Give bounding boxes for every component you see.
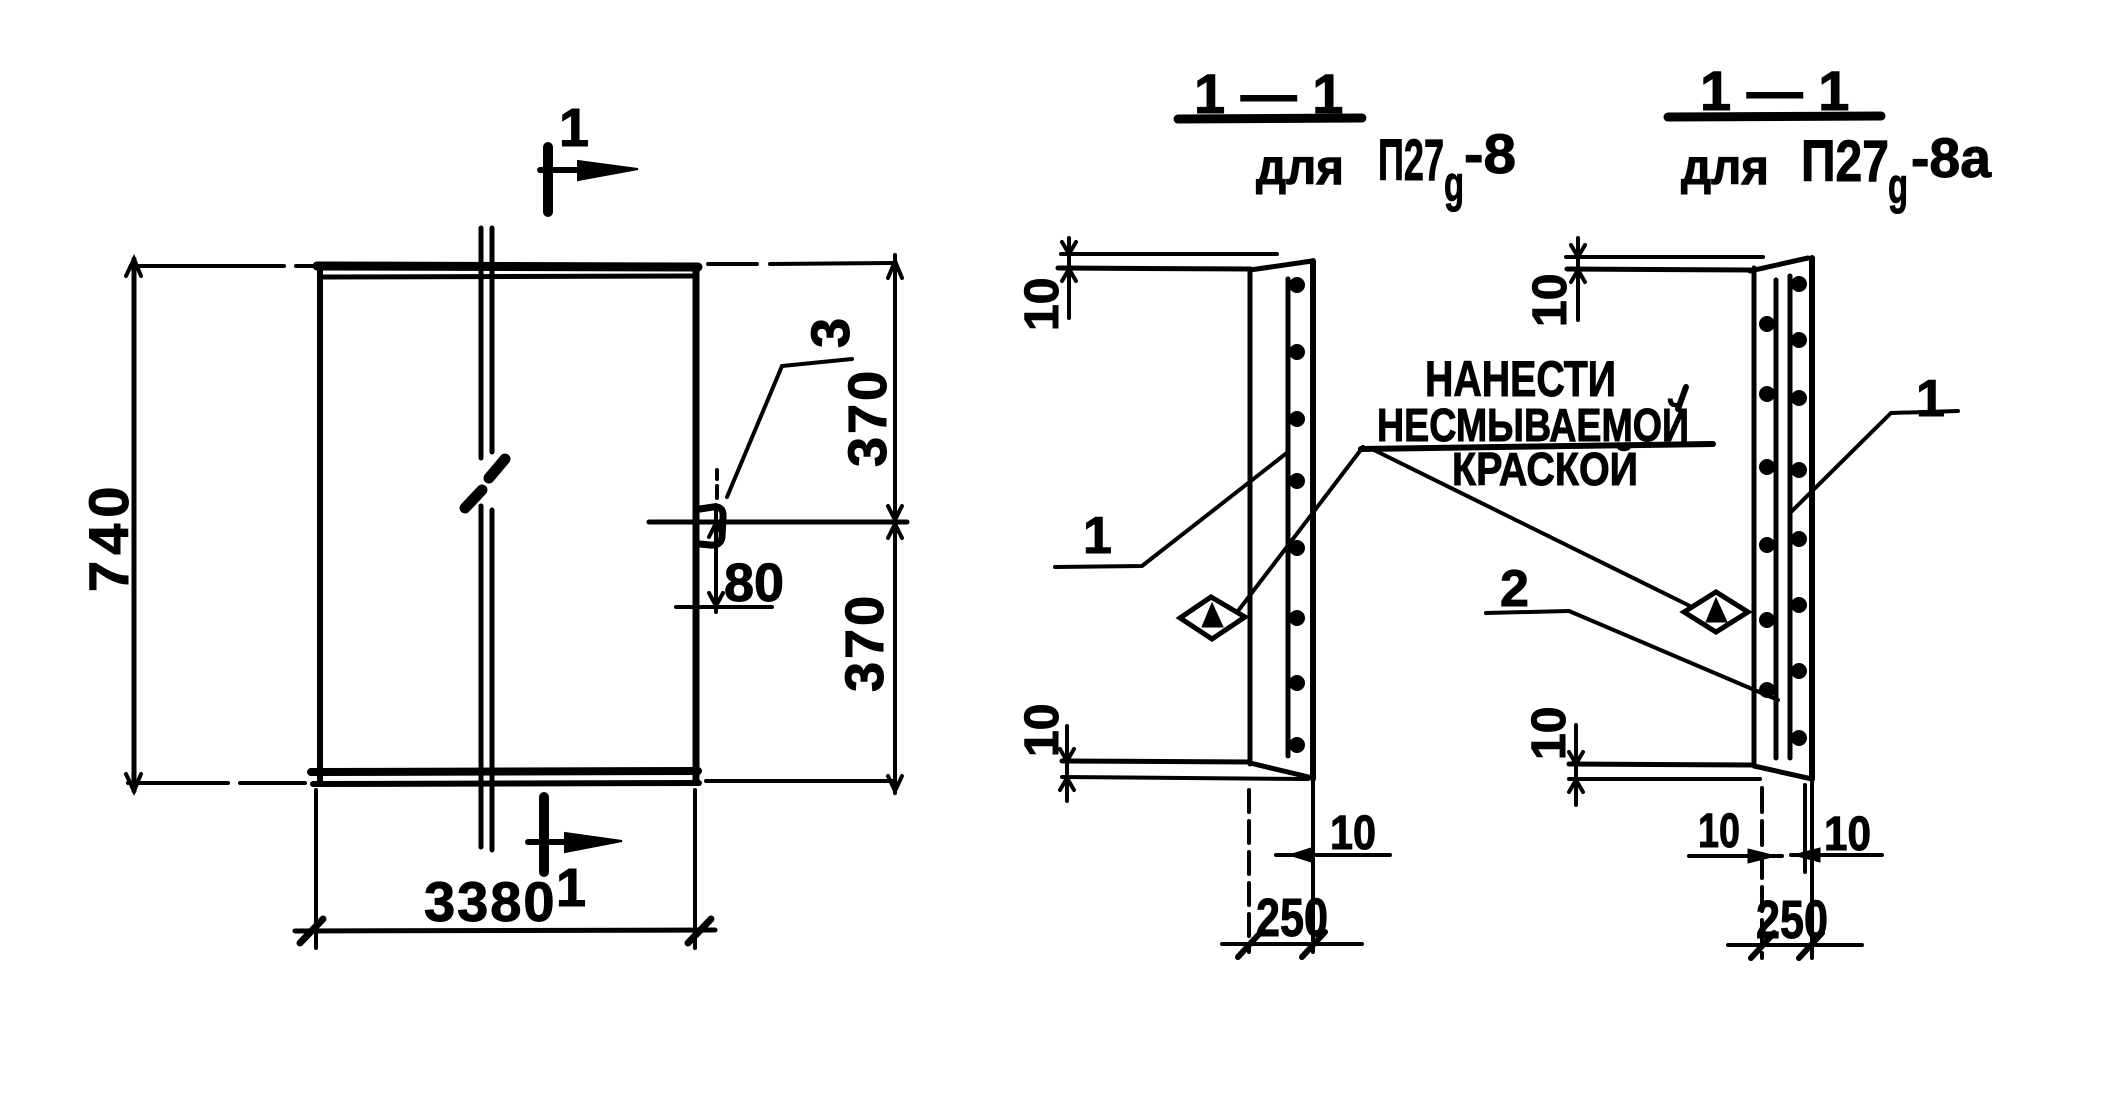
middle title 1-1 — [1178, 118, 1362, 119]
middle top extension line — [1061, 252, 1277, 256]
right item 2 leader — [1486, 611, 1778, 700]
right subtitle для П27д-8а — [1681, 126, 1992, 214]
middle dimension 250 — [1222, 932, 1362, 957]
dimension 80 — [676, 505, 772, 612]
top extension line right — [708, 263, 893, 264]
svg-text:для: для — [1256, 139, 1344, 195]
middle dimension 10 bottom right — [1276, 848, 1390, 862]
svg-text:740: 740 — [77, 481, 140, 592]
svg-text:1 — 1: 1 — 1 — [1700, 59, 1849, 122]
bottom extension line left — [128, 781, 305, 785]
comma after note line 1 — [1678, 387, 1686, 409]
right strip B line — [1788, 276, 1793, 758]
svg-text:370: 370 — [838, 368, 898, 467]
right surface mark diamond — [1684, 592, 1748, 632]
svg-text:3380: 3380 — [424, 870, 557, 933]
svg-text:10: 10 — [1016, 704, 1069, 757]
leader note to right diamond — [1374, 450, 1692, 607]
svg-text:1: 1 — [1916, 370, 1945, 428]
right top extension line — [1566, 255, 1763, 259]
right edge extension down — [693, 790, 697, 948]
dimension 740 line — [126, 259, 141, 791]
middle bottom dimension 10 — [1060, 726, 1074, 801]
bottom extension line right — [706, 779, 894, 783]
svg-text:П27: П27 — [1801, 129, 1889, 194]
middle top dimension 10 — [1062, 238, 1076, 318]
svg-text:КРАСКОЙ: КРАСКОЙ — [1452, 443, 1638, 495]
svg-text:-8а: -8а — [1911, 126, 1992, 189]
panel bottom edge (plan) — [311, 771, 699, 784]
middle marked strip line — [1286, 279, 1291, 756]
svg-text:10: 10 — [1330, 807, 1376, 860]
svg-text:370: 370 — [835, 593, 895, 692]
left edge extension down — [314, 790, 318, 948]
svg-text:80: 80 — [724, 553, 784, 613]
svg-text:1: 1 — [559, 98, 589, 158]
svg-text:3: 3 — [801, 318, 861, 348]
lifting loop item 3 — [700, 507, 723, 545]
right dimension 10 bottom right — [1791, 848, 1882, 862]
right item 1 leader — [1791, 411, 1958, 512]
svg-text:250: 250 — [1756, 890, 1828, 950]
svg-text:2: 2 — [1500, 560, 1529, 618]
middle panel left face — [1248, 269, 1253, 764]
svg-text:1: 1 — [1083, 507, 1112, 565]
svg-text:10: 10 — [1824, 808, 1871, 861]
right lower extension lines — [1762, 782, 1812, 958]
middle surface mark diamond — [1180, 597, 1245, 639]
top extension line — [134, 264, 318, 268]
svg-text:g: g — [1888, 158, 1908, 214]
svg-text:10: 10 — [1524, 274, 1577, 327]
break line (обрыв) — [465, 228, 505, 850]
middle item 1 leader — [1055, 452, 1288, 567]
svg-text:10: 10 — [1016, 278, 1069, 331]
right strip A dots — [1759, 316, 1775, 698]
svg-text:1 — 1: 1 — 1 — [1194, 62, 1343, 125]
right panel left face — [1752, 268, 1757, 765]
middle bottom extension line — [1062, 777, 1308, 779]
panel left edge (plan) — [317, 268, 323, 781]
right panel right face — [1809, 258, 1815, 779]
right panel top edge — [1567, 258, 1808, 271]
right strip A line — [1774, 280, 1779, 758]
svg-text:-8: -8 — [1464, 122, 1516, 185]
svg-text:g: g — [1444, 156, 1464, 212]
middle strip weld dots — [1289, 277, 1305, 753]
right strip B dots — [1791, 276, 1807, 746]
middle panel top edge — [1058, 261, 1312, 270]
leader to item 3 — [727, 359, 852, 497]
mid split line of 370 chain — [649, 520, 907, 525]
note underline — [1361, 444, 1713, 449]
right bottom extension line — [1569, 777, 1760, 781]
svg-text:10: 10 — [1523, 707, 1576, 760]
section mark 1 bottom — [528, 797, 622, 872]
svg-text:1: 1 — [556, 858, 586, 918]
section mark 1 top — [540, 147, 638, 212]
svg-text:10: 10 — [1698, 805, 1740, 858]
loop axis dashes — [715, 470, 719, 498]
dimension 3380 line — [295, 919, 715, 943]
right dimension 10 bottom left — [1689, 849, 1782, 863]
dimension 370 chain line — [888, 255, 902, 793]
svg-text:для: для — [1681, 139, 1769, 195]
svg-text:250: 250 — [1256, 888, 1328, 948]
middle panel bottom edge — [1062, 761, 1313, 778]
svg-text:П27: П27 — [1378, 128, 1444, 193]
middle subtitle для П27д-8 — [1256, 122, 1516, 212]
right bottom dimension 10 — [1569, 725, 1583, 805]
right panel bottom edge — [1569, 764, 1812, 779]
right dimension 250 — [1728, 933, 1862, 958]
leader note to middle diamond — [1238, 447, 1363, 611]
middle lower extension lines — [1249, 781, 1313, 952]
panel right edge (plan) — [693, 266, 700, 780]
middle panel right face — [1310, 261, 1316, 779]
panel top edge (plan) — [317, 266, 698, 277]
right top dimension 10 — [1571, 238, 1585, 320]
right title 1-1 — [1668, 116, 1881, 117]
